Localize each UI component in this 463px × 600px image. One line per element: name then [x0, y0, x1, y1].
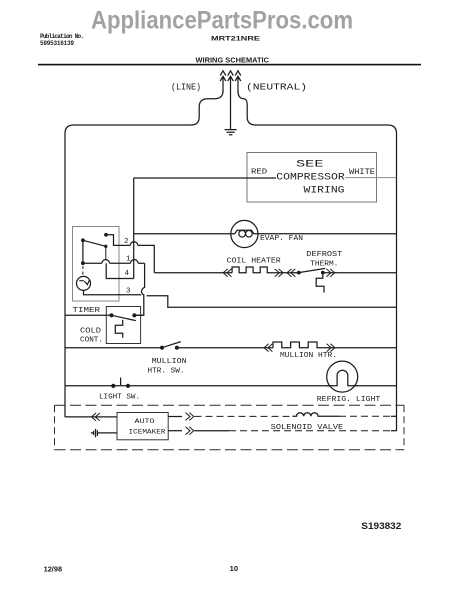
svg-text:5995316139: 5995316139: [40, 40, 74, 47]
wire terminal 1 down with hop: [135, 263, 145, 315]
svg-text:COLD: COLD: [80, 328, 102, 336]
svg-text:LIGHT SW.: LIGHT SW.: [99, 393, 140, 401]
cold control contact dots: [109, 313, 113, 317]
connector arrows icemaker right top: [186, 413, 194, 421]
resistor coil heater: [232, 267, 274, 273]
svg-text:REFRIG. LIGHT: REFRIG. LIGHT: [317, 396, 381, 404]
wire mid contact to terminal arc: [105, 246, 107, 259]
svg-text:AppliancePartsPros.com: AppliancePartsPros.com: [91, 7, 353, 35]
svg-text:THERM.: THERM.: [310, 261, 338, 269]
wire red lead: [134, 177, 276, 179]
connector arrows icemaker left: [92, 413, 100, 421]
light switch dots: [111, 384, 115, 388]
mullion heater switch blade: [162, 342, 181, 348]
svg-text:COMPRESSOR: COMPRESSOR: [276, 173, 344, 184]
title rule: [38, 64, 421, 66]
svg-text:COIL HEATER: COIL HEATER: [227, 258, 282, 266]
wire icemaker bottom right: [168, 430, 182, 432]
door dashed enclosure: [55, 405, 405, 449]
svg-text:10: 10: [230, 566, 239, 573]
solenoid valve coil: [292, 413, 339, 417]
connector arrows defrost right: [326, 269, 334, 277]
defrost thermostat lower leg: [316, 274, 324, 293]
icemaker box: [117, 413, 168, 440]
wire dashed to solenoid: [195, 415, 293, 417]
connector arrows coil heater right: [275, 269, 283, 277]
svg-text:HTR. SW.: HTR. SW.: [148, 367, 185, 375]
svg-text:Publication No.: Publication No.: [40, 33, 84, 40]
svg-text:DEFROST: DEFROST: [306, 251, 342, 259]
svg-text:4: 4: [125, 270, 130, 278]
wire white lead: [345, 177, 397, 179]
svg-text:MULLION: MULLION: [152, 358, 187, 366]
wire timer motor lead: [84, 290, 142, 295]
svg-text:CONT.: CONT.: [80, 336, 103, 344]
wire light line through lamp: [327, 385, 358, 387]
connector arrows defrost left: [287, 269, 295, 277]
svg-text:3: 3: [126, 288, 131, 296]
power cord arrows: [220, 71, 241, 129]
ground: [225, 130, 237, 135]
svg-text:MRT21NRE: MRT21NRE: [211, 36, 261, 43]
svg-text:S193832: S193832: [361, 521, 401, 531]
svg-text:(NEUTRAL): (NEUTRAL): [246, 83, 307, 93]
wire line-side cord and left bus: [65, 91, 223, 417]
timer motor clock: [77, 276, 91, 290]
wire light switch line: [65, 385, 397, 387]
wire timer common to lower contact: [82, 240, 84, 263]
svg-text:1: 1: [126, 256, 131, 264]
svg-text:MULLION HTR.: MULLION HTR.: [280, 352, 337, 360]
cold control bellows: [115, 320, 122, 338]
wire timer motor line to right bus: [147, 296, 397, 308]
terminal 2 arc: [130, 242, 138, 246]
svg-text:ICEMAKER: ICEMAKER: [129, 428, 166, 435]
connector arrows icemaker right bottom: [186, 427, 194, 435]
svg-text:AUTO: AUTO: [135, 418, 155, 425]
wire mullion line: [65, 347, 397, 349]
svg-text:2: 2: [124, 238, 129, 246]
wire cold control to timer leg: [134, 314, 143, 316]
publication number block: [40, 33, 84, 47]
wire icemaker bottom dashed to bus: [195, 430, 230, 432]
lamp refrigerator light: [327, 361, 358, 392]
wire terminal 4 jumper: [106, 263, 134, 278]
wire terminal 1 line: [83, 262, 145, 264]
wire terminal 2: [106, 235, 154, 273]
timer contact dot upper: [104, 233, 108, 237]
wire icemaker feed: [65, 416, 117, 418]
connector arrows mullion right: [327, 344, 335, 352]
timer switch blade: [83, 240, 106, 246]
motor evap fan: [231, 220, 258, 247]
svg-text:12/98: 12/98: [44, 566, 63, 573]
timer box: [73, 227, 120, 302]
svg-text:EVAP. FAN: EVAP. FAN: [260, 235, 303, 243]
wire left bus to cold control: [65, 314, 112, 316]
svg-text:RED: RED: [251, 169, 267, 177]
icemaker ground lead: [98, 432, 118, 434]
svg-text:WIRING: WIRING: [304, 185, 345, 196]
wire dashed solenoid to bus: [339, 415, 391, 417]
mullion heater switch dots: [160, 346, 164, 350]
svg-text:WHITE: WHITE: [349, 168, 375, 177]
connector arrows coil heater left: [223, 269, 231, 277]
svg-text:TIMER: TIMER: [73, 307, 101, 315]
wire neutral-side cord and right bus: [238, 91, 397, 431]
wire icemaker top right: [168, 416, 182, 418]
wire red vertical: [133, 178, 135, 279]
timer contact dot lower: [81, 261, 85, 265]
icemaker ground bars: [91, 429, 98, 437]
svg-text:WIRING SCHEMATIC: WIRING SCHEMATIC: [196, 58, 270, 65]
wire evap fan line: [134, 233, 397, 235]
wire timer lower contact to motor dashed: [82, 266, 84, 277]
timer contact dot mid: [104, 245, 107, 248]
cold control blade: [112, 315, 136, 320]
svg-text:(LINE): (LINE): [171, 83, 201, 93]
light switch plunger: [120, 378, 122, 385]
svg-text:SEE: SEE: [296, 160, 324, 171]
compressor box SEE COMPRESSOR WIRING: [247, 153, 377, 203]
cold control box: [106, 307, 140, 344]
wire coil heater line: [154, 272, 396, 274]
defrost thermostat blade: [299, 268, 325, 272]
defrost thermostat contacts: [297, 271, 301, 275]
resistor mullion heater: [273, 342, 326, 348]
connector arrows mullion left: [264, 344, 272, 352]
timer contact common dot: [81, 238, 85, 242]
terminal 4 arc: [131, 260, 139, 264]
terminal 1 arc: [102, 260, 110, 264]
